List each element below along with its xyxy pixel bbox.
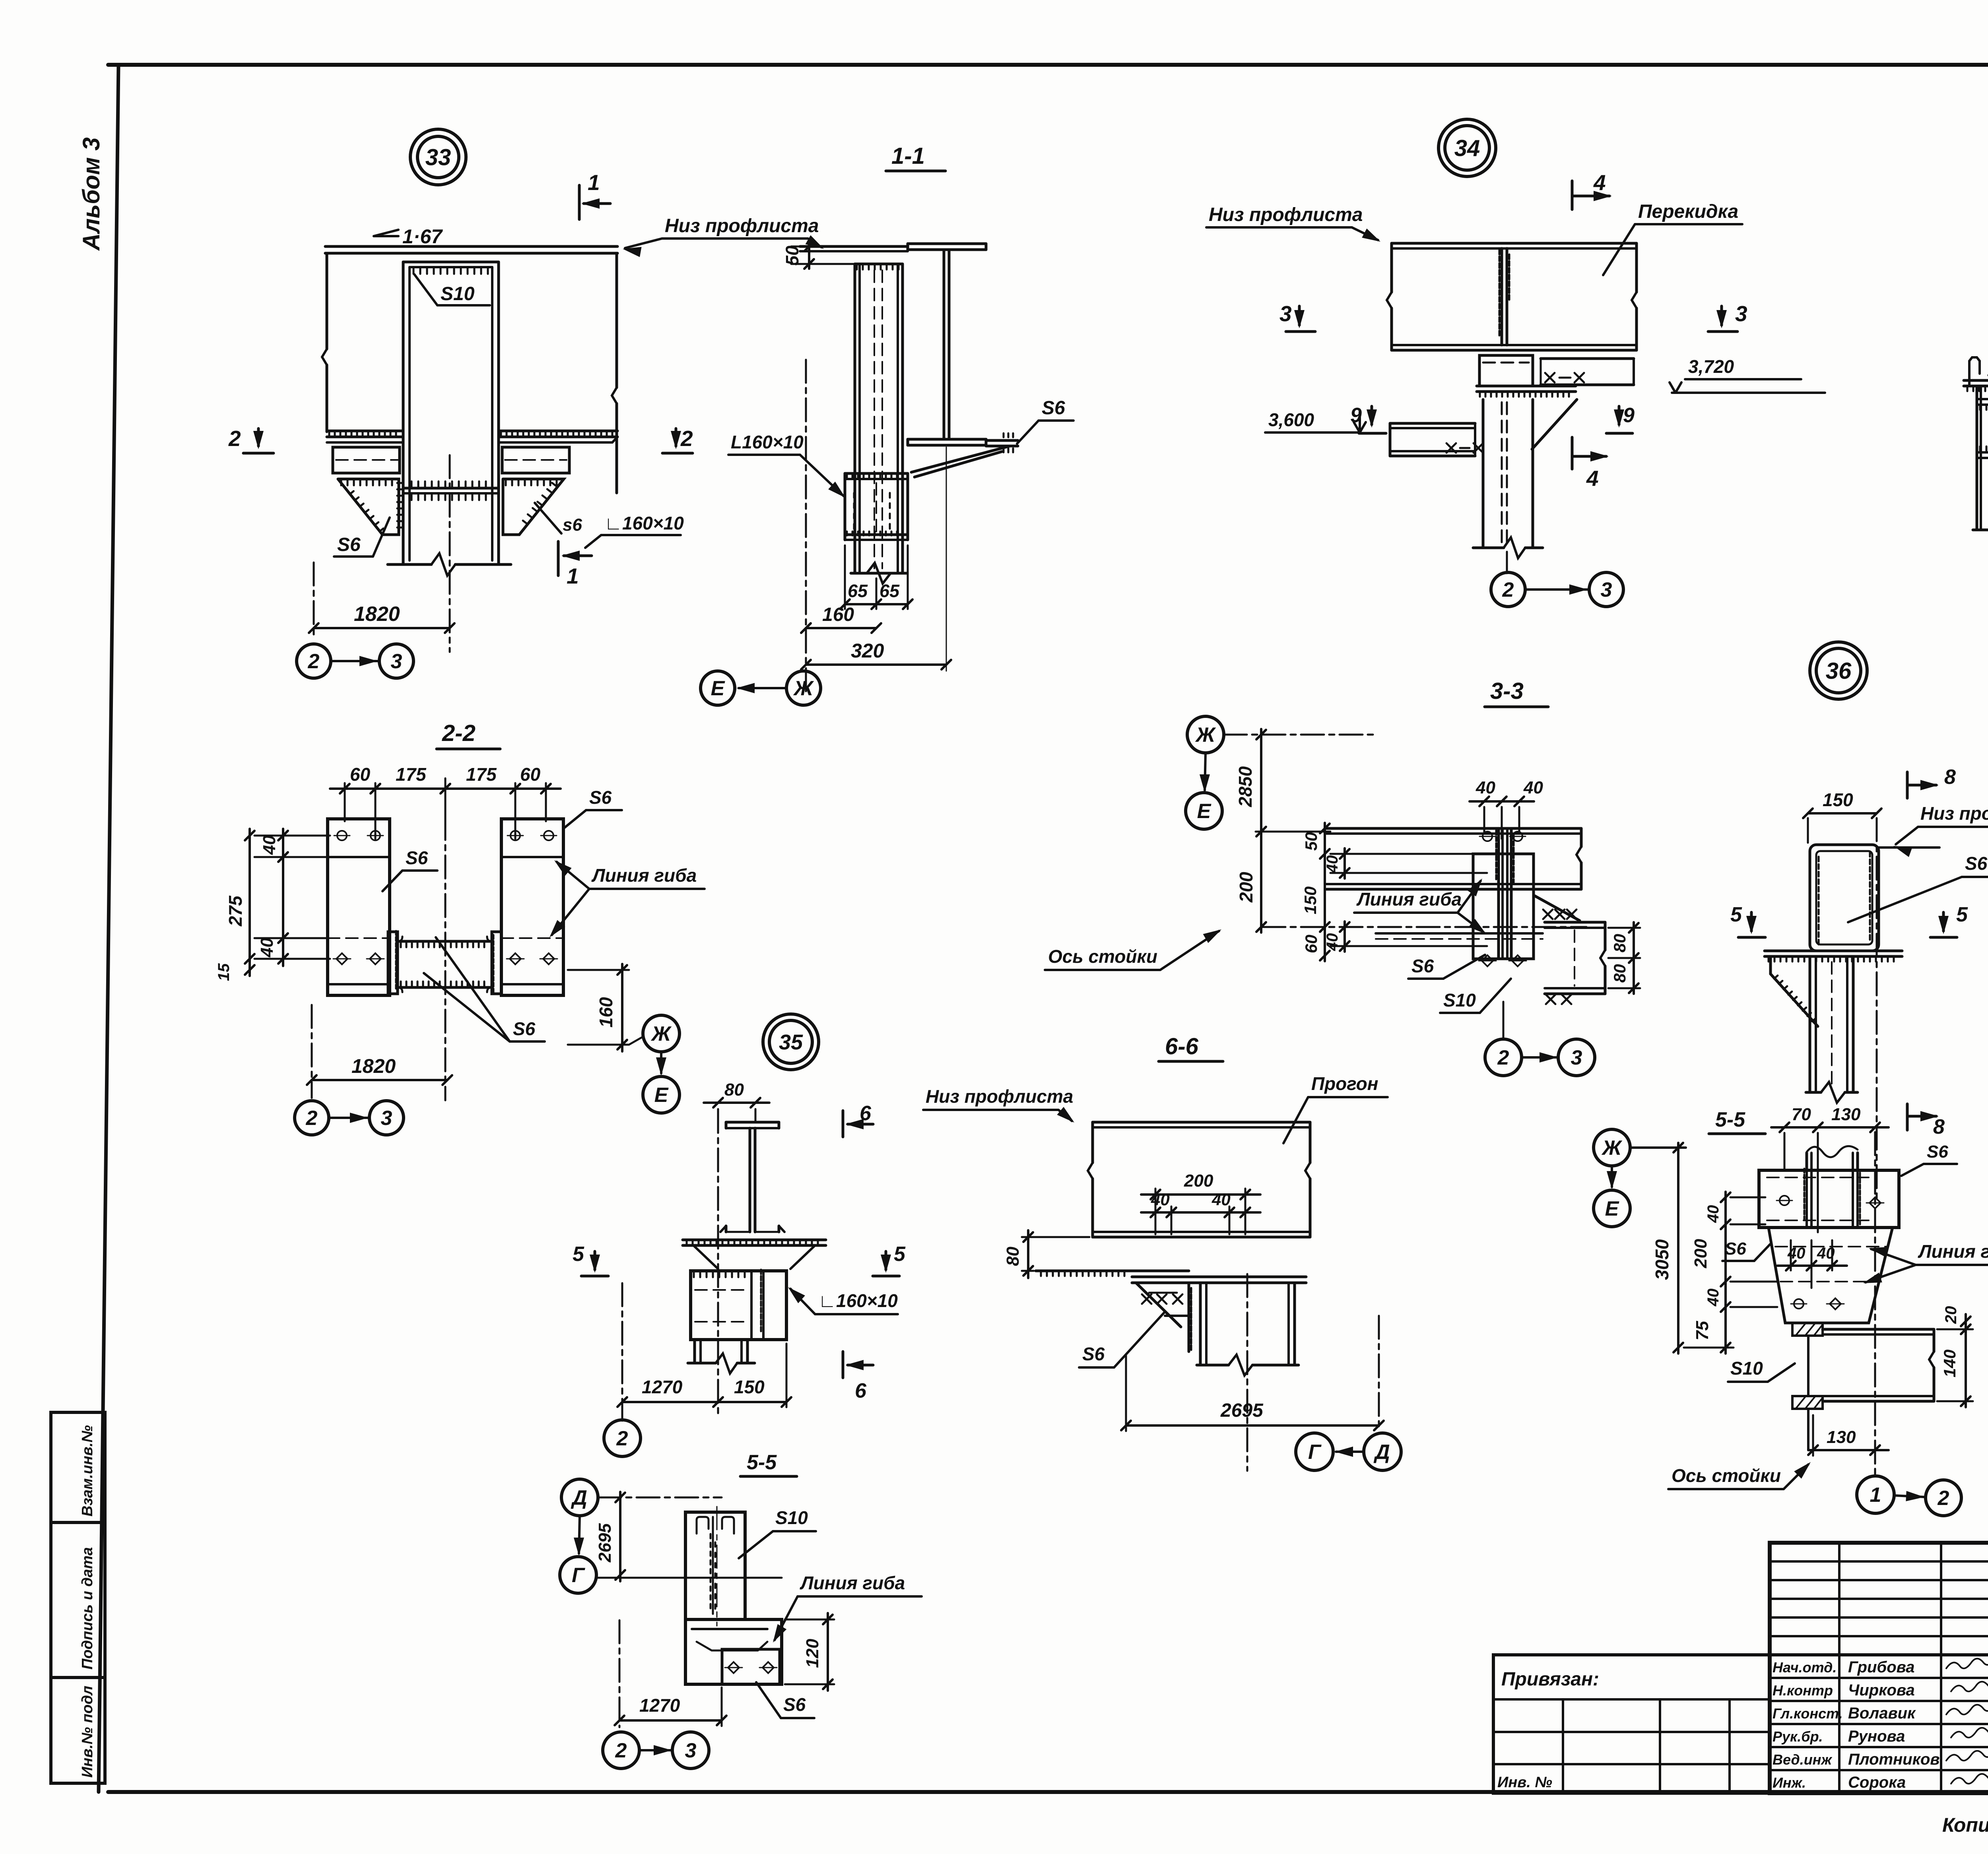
node 35 axis 2 dashdot <box>621 1283 623 1421</box>
5-5b bottom box <box>685 1619 782 1684</box>
2-2 middle web flange bars <box>388 932 398 994</box>
svg-text:Низ профлиста: Низ профлиста <box>1920 803 1988 824</box>
5-5r gusset trapezoid <box>1769 1228 1893 1323</box>
5-5r hatched splice plates <box>1792 1323 1823 1336</box>
1-1 web extension line <box>946 447 947 671</box>
svg-text:40: 40 <box>260 835 279 855</box>
svg-text:36: 36 <box>1826 658 1852 684</box>
svg-text:40: 40 <box>1151 1190 1170 1209</box>
node 33 column S10 <box>402 262 405 564</box>
node 35 dim 80 <box>717 1109 719 1119</box>
1-1 profiled sheet line <box>800 245 908 248</box>
node 36 dim 150 <box>1807 818 1809 843</box>
svg-text:34: 34 <box>1454 135 1480 161</box>
svg-text:S6: S6 <box>589 787 612 808</box>
svg-text:4: 4 <box>1593 170 1606 195</box>
svg-text:8: 8 <box>1944 766 1956 789</box>
node 35 seat plate <box>683 1239 826 1241</box>
svg-text:Инв. №: Инв. № <box>1497 1774 1552 1791</box>
svg-text:50: 50 <box>1302 832 1320 851</box>
svg-text:Сорока: Сорока <box>1848 1774 1906 1791</box>
svg-text:1: 1 <box>588 170 600 195</box>
node 34 section mark 4 top <box>1571 181 1574 209</box>
svg-text:33: 33 <box>425 144 451 170</box>
svg-text:200: 200 <box>1184 1171 1213 1191</box>
5-5r column through clamp <box>1806 1170 1808 1228</box>
svg-text:40: 40 <box>1705 1205 1722 1224</box>
svg-text:Нач.отд.: Нач.отд. <box>1773 1659 1837 1676</box>
2-2 left dim stack 40 275 40 15 <box>254 835 330 837</box>
1-1 centerline axis E <box>805 360 807 696</box>
title block outer frame <box>1770 1543 1988 1793</box>
svg-text:s6: s6 <box>563 515 582 535</box>
svg-text:80: 80 <box>724 1080 744 1100</box>
svg-text:3: 3 <box>1571 1046 1582 1069</box>
svg-text:Перекидка: Перекидка <box>1638 201 1738 222</box>
svg-text:S6: S6 <box>406 847 428 868</box>
svg-text:1-1: 1-1 <box>891 143 925 169</box>
1-1 I-beam top flange <box>908 242 986 245</box>
svg-text:120: 120 <box>803 1639 822 1668</box>
3-3 dim 80 80 right <box>1608 927 1640 929</box>
3-3 grid circles 2-3 <box>1485 1039 1522 1076</box>
3-3 vertical stiffener <box>1497 828 1500 959</box>
drawing frame border <box>108 63 1988 67</box>
svg-text:2: 2 <box>615 1739 627 1762</box>
svg-text:Ось стойки: Ось стойки <box>1048 946 1157 967</box>
svg-text:S6: S6 <box>1927 1142 1948 1162</box>
node 34 cap plate <box>1477 385 1576 388</box>
svg-text:3: 3 <box>1735 301 1747 326</box>
5-5b weld line inside plate <box>712 1517 714 1614</box>
svg-text:3: 3 <box>381 1107 392 1130</box>
node 33 column splice weld line <box>403 487 499 490</box>
6-6 column <box>1199 1283 1202 1365</box>
svg-text:S10: S10 <box>775 1507 808 1528</box>
svg-text:320: 320 <box>851 640 884 662</box>
3-3 bottom bent plate lines <box>1376 932 1543 935</box>
svg-text:175: 175 <box>396 764 427 785</box>
node 34 left stub beam <box>1390 422 1475 425</box>
svg-text:Рук.бр.: Рук.бр. <box>1773 1728 1823 1745</box>
node 34 column bottom break <box>1473 547 1504 549</box>
svg-text:4: 4 <box>1586 466 1599 491</box>
node 35 I-beam bottom flange <box>726 1231 779 1233</box>
5-5r dim 3050 vertical <box>1630 1146 1686 1149</box>
6-6 dim 80 left <box>1022 1236 1089 1238</box>
svg-text:2: 2 <box>228 426 241 451</box>
svg-text:1270: 1270 <box>639 1695 680 1716</box>
svg-text:1820: 1820 <box>354 603 400 626</box>
svg-text:200: 200 <box>1236 872 1256 903</box>
svg-text:Копировал:: Копировал: <box>1942 1814 1988 1836</box>
svg-text:1: 1 <box>567 564 579 588</box>
svg-text:1·67: 1·67 <box>402 225 443 248</box>
5-5b S10 plate <box>685 1512 745 1619</box>
svg-text:Д: Д <box>1373 1441 1390 1464</box>
svg-text:Подпись и дата: Подпись и дата <box>79 1547 96 1670</box>
5-5b dim 1270 <box>619 1719 722 1722</box>
svg-text:Г: Г <box>1308 1441 1322 1464</box>
svg-text:200: 200 <box>1691 1239 1710 1268</box>
svg-text:40: 40 <box>1705 1289 1722 1307</box>
svg-text:S6: S6 <box>1042 398 1065 419</box>
2-2 top dims 60 175 175 60 <box>344 783 346 821</box>
node 36 bubble <box>1810 642 1867 699</box>
title block left small table <box>1770 1560 1988 1563</box>
svg-text:Привязан:: Привязан: <box>1501 1669 1599 1690</box>
5-5b clamp hooks inside <box>697 1517 709 1534</box>
svg-text:3,720: 3,720 <box>1688 356 1734 377</box>
3-3 vertical dim 2850 200 <box>1260 729 1262 933</box>
node 36 axis centerline <box>1876 818 1878 1198</box>
svg-text:2: 2 <box>1938 1487 1949 1510</box>
svg-text:9: 9 <box>1350 404 1362 427</box>
2-2 middle web <box>398 940 492 943</box>
node 36 section mark 8 bottom <box>1906 1104 1909 1130</box>
node 33 beam bottom flange left <box>327 430 403 432</box>
svg-text:3-3: 3-3 <box>1490 678 1524 704</box>
svg-text:275: 275 <box>225 895 246 927</box>
svg-text:Взам.инв.№: Взам.инв.№ <box>79 1425 96 1517</box>
1-1 dim 65 65 <box>844 545 846 609</box>
node 36 column bottom break <box>1806 1091 1821 1094</box>
svg-text:2: 2 <box>680 426 693 451</box>
node 33 clamp plate right <box>502 447 569 473</box>
node 36 gusset left <box>1769 956 1772 974</box>
node 34 bracket box <box>1479 355 1533 386</box>
svg-text:3: 3 <box>685 1739 697 1762</box>
svg-text:2695: 2695 <box>1220 1400 1264 1421</box>
node 35 dims 1270 150 <box>622 1401 786 1403</box>
node 35 section mark 6 bottom <box>842 1352 845 1378</box>
node 33 clamp plate left <box>333 447 400 473</box>
svg-text:2: 2 <box>308 650 320 673</box>
5-5b inner plate with holes <box>722 1649 780 1684</box>
5-5r left dim stack 40 200 40 75 <box>1724 1192 1727 1354</box>
node 33 beam left edge <box>326 253 328 349</box>
svg-text:Линия гиба: Линия гиба <box>591 865 697 886</box>
svg-text:Ось стойки: Ось стойки <box>1672 1465 1781 1486</box>
node 35 seat side wedges <box>693 1245 718 1269</box>
svg-text:175: 175 <box>466 764 497 785</box>
svg-text:Ж: Ж <box>1601 1136 1623 1160</box>
node 35 grid circle 2 <box>604 1420 641 1456</box>
node 34 gusset diagonal <box>1532 400 1577 449</box>
node 34 column <box>1482 400 1485 548</box>
1-1 column bottom break <box>851 572 907 575</box>
1-1 column inner dashed lines <box>874 270 875 568</box>
svg-text:2695: 2695 <box>595 1523 615 1563</box>
svg-text:Н.контр: Н.контр <box>1773 1682 1833 1699</box>
svg-text:S6: S6 <box>513 1018 536 1039</box>
svg-text:1: 1 <box>1870 1484 1881 1507</box>
node 33 section mark 2 right <box>662 452 693 455</box>
3-3 bracket outline <box>1473 854 1534 959</box>
2-2 dim 160 right <box>568 969 629 971</box>
svg-text:Е: Е <box>1605 1197 1619 1220</box>
6-6 bracket <box>1136 1283 1181 1327</box>
svg-text:Инж.: Инж. <box>1773 1774 1806 1791</box>
node 33 section mark 1 top <box>578 185 581 219</box>
svg-text:40: 40 <box>1324 933 1341 952</box>
svg-text:Е: Е <box>654 1084 669 1107</box>
3-3 top dim 40 40 <box>1483 807 1485 833</box>
5-5b grid circles 2-3 <box>603 1732 639 1769</box>
3-3 channel stub right <box>1545 921 1605 924</box>
5-5r dim 130 bottom <box>1812 1415 1814 1456</box>
svg-text:Вед.инж: Вед.инж <box>1773 1751 1833 1768</box>
svg-text:Г: Г <box>572 1564 585 1587</box>
node 33 section mark 1 bottom <box>557 541 560 576</box>
node 35 I-beam web <box>749 1128 751 1232</box>
node 33 beam right edge <box>615 253 618 388</box>
svg-text:Низ профлиста: Низ профлиста <box>1209 204 1363 225</box>
6-6 weld x marks <box>1142 1294 1151 1304</box>
svg-text:Альбом 3: Альбом 3 <box>78 137 105 251</box>
node 36 section mark 8 top <box>1906 772 1909 798</box>
5-5r gusset dims 40 40 <box>1790 1240 1792 1270</box>
6-6 dim 2695 <box>1125 1356 1127 1431</box>
svg-text:140: 140 <box>1940 1350 1959 1377</box>
svg-text:Ж: Ж <box>650 1022 672 1045</box>
node 33 column bottom break <box>388 563 431 566</box>
node 33 dim 1820 <box>314 627 450 629</box>
svg-text:75: 75 <box>1693 1321 1712 1340</box>
1-1 grid circles E-Zh <box>701 671 735 705</box>
svg-text:150: 150 <box>1823 789 1853 810</box>
svg-text:65: 65 <box>848 581 868 601</box>
svg-text:80: 80 <box>1610 934 1629 952</box>
4-4 column weld lines <box>1977 398 1988 400</box>
svg-text:3: 3 <box>1601 578 1612 601</box>
svg-text:3: 3 <box>1279 301 1292 326</box>
3-3 beam right end break <box>1580 828 1583 847</box>
svg-text:S6: S6 <box>1725 1239 1746 1259</box>
2-2 right plate <box>501 819 563 995</box>
1-1 S6 bent plate <box>986 439 1018 442</box>
svg-text:Гл.конст.: Гл.конст. <box>1773 1705 1843 1722</box>
svg-text:60: 60 <box>520 764 541 785</box>
svg-text:40: 40 <box>1787 1245 1806 1262</box>
5-5r grid circles 1-2 <box>1857 1476 1894 1513</box>
node 33 slope mark 1:67 <box>374 235 398 237</box>
2-2 grid circles 2-3 <box>295 1101 329 1135</box>
3-3 beam top <box>1326 827 1581 830</box>
svg-text:130: 130 <box>1831 1105 1861 1124</box>
svg-text:Инв.№ подл: Инв.№ подл <box>79 1686 96 1778</box>
node 34 seat plate right <box>1541 357 1634 360</box>
node 36 bent channel <box>1810 845 1879 951</box>
svg-text:S6: S6 <box>1965 853 1988 874</box>
5-5b grid circles D-G <box>561 1479 598 1516</box>
6-6 centerline <box>1246 1274 1248 1471</box>
svg-text:2: 2 <box>1502 578 1514 601</box>
svg-text:2: 2 <box>616 1427 628 1450</box>
1-1 bracket bolt ticks <box>853 493 855 529</box>
svg-text:40: 40 <box>257 938 277 958</box>
node 35 bracket box <box>691 1271 786 1340</box>
node 35 column below <box>693 1340 696 1363</box>
6-6 column bottom break <box>1197 1364 1229 1367</box>
4-4 column body <box>1976 388 1978 530</box>
svg-text:Чиркова: Чиркова <box>1848 1681 1915 1699</box>
5-5b axis dashdot <box>619 1620 621 1727</box>
svg-text:50: 50 <box>782 246 802 266</box>
3-3 vertical dim 50 150 60 <box>1324 823 1326 961</box>
2-2 axis 2 dashdot <box>311 1005 313 1098</box>
1-1 column <box>854 264 856 573</box>
node 35 bubble <box>763 1014 819 1070</box>
3-3 grid circles Zh-E <box>1187 716 1224 753</box>
svg-text:S10: S10 <box>441 283 475 304</box>
node 34 section mark 4 bottom <box>1571 437 1574 469</box>
3-3 beam bottom <box>1326 883 1581 885</box>
5-5r dims 20 140 <box>1937 1328 1973 1330</box>
svg-text:40: 40 <box>1324 855 1341 874</box>
svg-text:160: 160 <box>596 997 616 1028</box>
node 33 top chord (profiled sheet bottom) <box>325 245 617 248</box>
1-1 dim 160 <box>806 627 876 629</box>
node 33 beam bottom flange right <box>499 430 617 432</box>
1-1 dim 50 <box>808 242 810 269</box>
5-5b vertical dim 2695 <box>619 1492 621 1581</box>
svg-text:40: 40 <box>1475 778 1495 797</box>
svg-text:Низ профлиста: Низ профлиста <box>926 1086 1073 1107</box>
svg-text:Рунова: Рунова <box>1848 1728 1905 1745</box>
6-6 cap plate <box>1132 1276 1306 1278</box>
svg-text:Е: Е <box>1197 800 1211 823</box>
svg-text:40: 40 <box>1523 778 1543 797</box>
svg-text:S10: S10 <box>1443 990 1476 1010</box>
2-2 grid circles Zh-E <box>643 1015 679 1052</box>
5-5r grid circles Zh-E <box>1594 1129 1630 1166</box>
svg-text:80: 80 <box>1610 964 1629 983</box>
5-5r clamp box <box>1759 1170 1899 1228</box>
svg-text:5: 5 <box>1956 903 1968 926</box>
svg-text:5-5: 5-5 <box>747 1451 777 1474</box>
svg-text:6-6: 6-6 <box>1165 1034 1199 1059</box>
svg-text:Грибова: Грибова <box>1848 1658 1915 1676</box>
svg-text:160: 160 <box>822 604 854 625</box>
node 34 column centerline <box>1506 552 1508 573</box>
svg-text:1820: 1820 <box>351 1055 396 1077</box>
svg-text:Линия гиба: Линия гиба <box>1918 1241 1988 1262</box>
node 33 grid circles 2-3 <box>297 644 331 678</box>
title block columns <box>1838 1543 1840 1793</box>
5-5r axis centerline <box>1874 1132 1876 1476</box>
4-4 column flange curls <box>1969 357 1980 386</box>
5-5r top dims 70 130 <box>1784 1133 1786 1169</box>
svg-text:20: 20 <box>1942 1306 1960 1325</box>
node 33 column centerline <box>449 455 451 652</box>
svg-text:40: 40 <box>1817 1245 1835 1262</box>
svg-text:Ж: Ж <box>1195 723 1216 747</box>
svg-text:∟160×10: ∟160×10 <box>604 513 684 533</box>
svg-text:5: 5 <box>573 1243 584 1266</box>
svg-text:Линия гиба: Линия гиба <box>800 1573 905 1593</box>
svg-text:Низ профлиста: Низ профлиста <box>665 215 819 237</box>
node 34 grid circles 2-3 <box>1491 572 1525 607</box>
svg-text:5: 5 <box>1730 903 1742 926</box>
2-2 left plate <box>328 819 390 995</box>
node 33 bent gusset left <box>338 479 399 535</box>
5-5r column lines below <box>1807 1336 1809 1396</box>
node 34 bubble <box>1439 119 1496 176</box>
svg-text:6: 6 <box>860 1102 872 1125</box>
node 35 I-beam section top flange <box>726 1121 779 1124</box>
svg-text:130: 130 <box>1827 1427 1856 1447</box>
svg-text:2: 2 <box>1497 1046 1509 1069</box>
node 33 axis 2 line <box>313 562 315 636</box>
svg-text:1270: 1270 <box>642 1377 683 1397</box>
svg-text:6: 6 <box>855 1379 867 1402</box>
svg-text:S6: S6 <box>783 1694 806 1715</box>
svg-text:Е: Е <box>711 677 725 700</box>
3-3 axis dashdot top <box>1224 734 1375 736</box>
svg-text:2-2: 2-2 <box>442 720 476 746</box>
node 34 beam outline <box>1392 242 1637 245</box>
svg-text:L160×10: L160×10 <box>731 432 804 452</box>
4-4 column bottom break <box>1973 529 1988 531</box>
3-3 weld x marks <box>1543 910 1553 919</box>
3-3 bolt holes <box>1483 832 1492 841</box>
svg-text:Линия гиба: Линия гиба <box>1356 889 1462 910</box>
5-5r column stub top <box>1806 1153 1808 1170</box>
svg-text:S10: S10 <box>1730 1358 1763 1379</box>
svg-text:150: 150 <box>1301 886 1320 914</box>
3-3 vertical dim 40 40 <box>1343 848 1346 879</box>
1-1 angle bracket on column <box>845 472 908 475</box>
1-1 I-beam web <box>943 250 945 439</box>
svg-text:80: 80 <box>1003 1247 1023 1266</box>
svg-text:Волавик: Волавик <box>1848 1705 1916 1722</box>
6-6 beam <box>1093 1121 1310 1124</box>
svg-text:3: 3 <box>391 650 402 673</box>
svg-text:60: 60 <box>1302 935 1320 953</box>
2-2 centerline vertical <box>445 778 447 1100</box>
5-5b axis dashdot from D <box>598 1497 722 1499</box>
svg-text:2850: 2850 <box>1235 766 1256 807</box>
5-5b line at G level <box>596 1577 782 1579</box>
left margin stamp table <box>51 1412 105 1783</box>
svg-text:Прогон: Прогон <box>1311 1073 1378 1094</box>
svg-text:150: 150 <box>734 1377 765 1397</box>
svg-text:3050: 3050 <box>1652 1239 1672 1280</box>
1-1 dim 320 <box>806 663 946 666</box>
svg-text:70: 70 <box>1792 1105 1811 1124</box>
svg-text:Плотников: Плотников <box>1848 1751 1940 1768</box>
6-6 dims 200 and 40 40 <box>1155 1189 1157 1234</box>
node 35 centerline <box>717 1110 719 1415</box>
svg-text:15: 15 <box>215 963 233 981</box>
4-4 beam top flange <box>1964 379 1988 382</box>
svg-text:Ж: Ж <box>793 677 814 700</box>
svg-text:65: 65 <box>879 581 900 601</box>
svg-text:∟160×10: ∟160×10 <box>818 1290 898 1311</box>
svg-text:Д: Д <box>571 1486 587 1509</box>
svg-text:S6: S6 <box>337 534 361 555</box>
6-6 seat line <box>1036 1270 1189 1272</box>
1-1 I-beam bottom flange <box>908 438 986 441</box>
node 33 bent gusset right <box>503 479 564 535</box>
title block signature rows <box>1770 1677 1988 1679</box>
2-2 dim 1820 <box>312 1079 447 1081</box>
3-3 axis line of column <box>1262 926 1586 928</box>
5-5r beam to the right <box>1823 1328 1934 1331</box>
svg-text:5-5: 5-5 <box>1715 1108 1745 1131</box>
node 33 bubble <box>410 129 466 185</box>
